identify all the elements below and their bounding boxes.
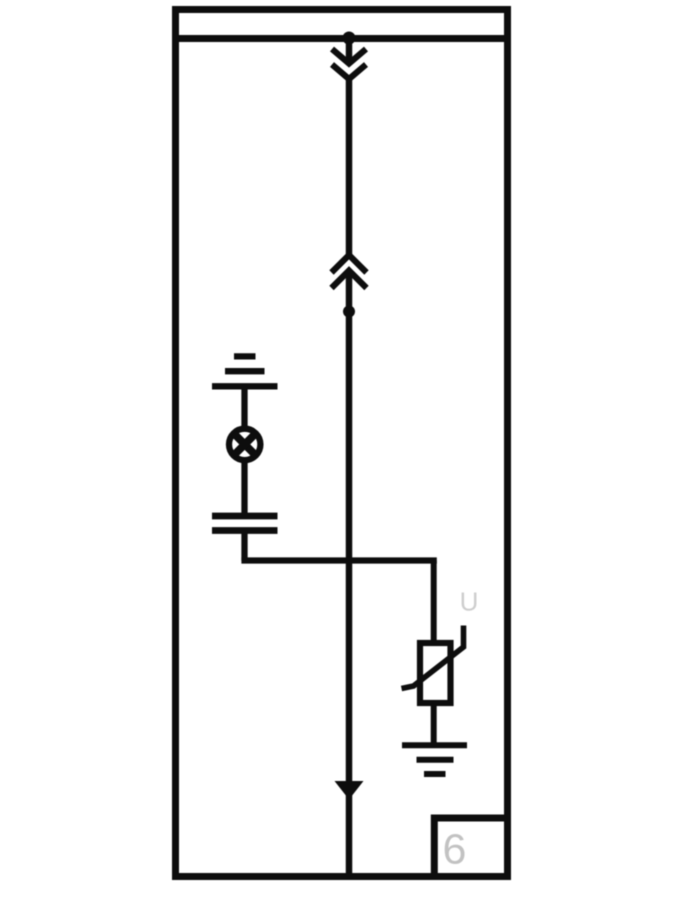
wire: stub from busbar [346, 38, 353, 62]
node: busbar tap junction [343, 32, 356, 45]
wire: main riser upper segment [346, 78, 353, 257]
withdrawable contact X2 (lower, chevrons up) [332, 255, 367, 273]
wire: arrester branch drop [431, 561, 437, 646]
busbar [172, 35, 511, 42]
label box (cell number) [434, 818, 507, 877]
cable feeder arrow (outgoing line) [335, 781, 364, 800]
ground G2 (below arrester) [402, 745, 467, 774]
wire: main riser lower segment [346, 271, 353, 874]
capacitor C1 [212, 516, 278, 531]
ground G1 (inverted, above lamp) [212, 356, 278, 386]
node: junction dot below contact [343, 306, 355, 318]
wire: ground to lamp [241, 386, 247, 429]
svg-text:U: U [460, 587, 479, 617]
wire: lamp to capacitor [241, 460, 247, 516]
cell enclosure frame [176, 10, 508, 877]
lamp HL1 (circle with cross) [229, 429, 260, 460]
wire: capacitor down to horizontal run [241, 531, 247, 561]
svg-text:6: 6 [443, 826, 467, 874]
wire: arrester to ground [431, 703, 437, 745]
wire: horizontal run to arrester branch [241, 557, 436, 563]
surge arrester RV1 (varistor) [420, 643, 451, 703]
withdrawable contact X1 (upper, chevrons down) [332, 49, 366, 64]
